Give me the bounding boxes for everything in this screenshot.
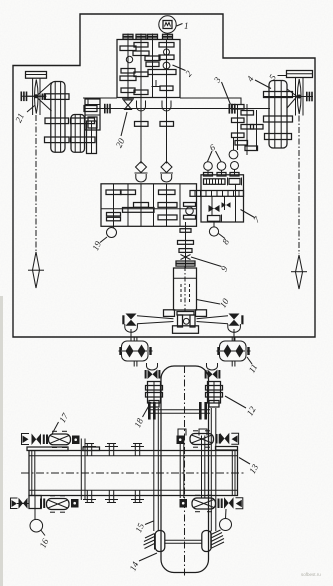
right spindle shaft	[291, 116, 307, 290]
right vibrator eccentric	[177, 436, 185, 445]
coupling on shaft 3 right	[229, 104, 236, 114]
bearing cup motor shaft	[162, 101, 171, 112]
drive 12 bevel	[205, 363, 221, 379]
vibrator 17 thrust cone	[22, 434, 30, 445]
weight 16	[30, 509, 45, 536]
shaft 9 bevel cross	[181, 255, 191, 260]
housing 10 flange right	[196, 310, 207, 317]
drive 18 gear bracket	[146, 382, 163, 408]
left yoke frame	[51, 82, 65, 153]
head 7 bevel pair b	[222, 202, 231, 208]
gear case 19 housing	[101, 184, 197, 227]
right weight	[220, 509, 232, 531]
ground hatch right	[211, 530, 224, 548]
label 21	[13, 83, 51, 125]
drum end bracket	[29, 496, 41, 509]
svg-text:1: 1	[184, 21, 189, 31]
guide rails 15 left	[154, 408, 159, 531]
vibrator 17 pulley	[32, 434, 42, 446]
gear on drop motor shaft	[160, 122, 174, 127]
vibrator 17 body	[49, 431, 71, 447]
label 6	[208, 142, 222, 162]
bearing cup shaft II	[137, 101, 146, 111]
gears motor shaft	[148, 43, 176, 91]
wheel axle	[148, 402, 210, 420]
machine frame	[161, 366, 209, 578]
housing 10 body	[174, 266, 197, 312]
second yoke frame	[71, 115, 85, 153]
spindle head 7 housing	[201, 175, 244, 222]
drive 18 bevel	[145, 363, 161, 379]
shaft 9 coupling b	[178, 241, 194, 245]
label 13	[239, 458, 260, 476]
label 3	[211, 75, 230, 105]
lower vibrator eccentric	[71, 499, 79, 508]
shaft 9 coupling c	[179, 249, 192, 253]
drum pedestal right	[83, 447, 100, 451]
right vibrator body	[190, 431, 214, 447]
housing 10 flange left	[164, 310, 175, 317]
svg-text:sofbest.ru: sofbest.ru	[301, 572, 321, 577]
pulley 5 shaft	[264, 92, 313, 102]
label 4	[245, 74, 271, 89]
shaft 9 coupling a	[180, 229, 191, 233]
vibrator 17 eccentric	[72, 436, 80, 445]
frame outline	[13, 14, 315, 337]
gears shaft III	[145, 56, 161, 87]
elastic coupling right drop shaft	[160, 162, 173, 227]
case 19 shaft c	[153, 184, 155, 227]
bearing box right	[87, 121, 97, 154]
label 14	[128, 553, 157, 573]
left yoke gear upper	[45, 94, 70, 100]
gearbox shaft I	[123, 34, 133, 100]
label 5	[267, 72, 286, 81]
case 19 gears	[106, 190, 196, 220]
scan edge shading	[0, 296, 3, 586]
right gear cluster	[232, 104, 264, 155]
belt pulley 5 wheel	[292, 78, 307, 116]
gearbox shaft II	[136, 34, 146, 164]
weight 8	[209, 222, 225, 239]
lower vibrator pulley	[17, 498, 29, 509]
housing 10 base	[173, 326, 199, 334]
second yoke gear upper	[71, 118, 95, 124]
label 18	[132, 402, 151, 429]
lower vibrator thrust cone	[11, 498, 18, 509]
lower right vibrator body	[192, 495, 216, 511]
auger drum 13	[21, 451, 246, 496]
gearbox motor shaft	[166, 40, 168, 164]
right yoke gear lower	[265, 134, 292, 140]
drum pedestal left	[27, 447, 68, 451]
label 12	[225, 396, 258, 417]
motor M (1)	[159, 16, 176, 40]
pulley 21 shaft	[21, 92, 47, 102]
gear on shaft 3 left end	[84, 106, 97, 112]
vertical shaft 9	[185, 222, 187, 268]
right vibrator pulley	[220, 433, 230, 445]
head 7 bottom coupling	[208, 215, 222, 223]
second yoke gear lower	[71, 137, 96, 143]
left wheel	[155, 531, 165, 552]
left yoke gear lower	[45, 137, 70, 143]
label 7	[241, 210, 263, 225]
vibrator 17 coupling	[43, 435, 48, 445]
label 11	[247, 357, 260, 374]
gears shaft I	[120, 46, 136, 93]
drum pin c	[131, 444, 144, 503]
head 7 bevel pair a	[209, 205, 220, 212]
bearing cap a	[178, 429, 186, 498]
right yoke gear upper	[264, 92, 293, 98]
universal joint 11 left	[119, 337, 153, 367]
gearbox shaft III	[148, 34, 158, 98]
spreader arm left	[137, 316, 174, 324]
right vibrator coupling	[216, 434, 221, 444]
lower right vibrator pulley	[224, 497, 234, 509]
weight 19	[100, 213, 121, 243]
label 15	[133, 521, 153, 534]
ground hatch left	[144, 534, 155, 550]
label 10	[197, 296, 231, 309]
head 7 gear rack	[190, 191, 244, 197]
case 19 shaft b	[127, 184, 129, 227]
spreader arm right	[197, 316, 229, 324]
label 9	[191, 257, 230, 273]
right yoke frame 4	[269, 81, 301, 149]
left spindle shaft	[28, 115, 44, 288]
case 19 shaft d	[179, 184, 181, 227]
label 17	[52, 411, 70, 434]
belt pulley 21 top bar	[26, 72, 47, 79]
link gearbox to left bearing box	[83, 97, 117, 99]
coupling on shaft 3 left	[104, 104, 111, 114]
belt pulley 21 wheel	[27, 78, 45, 115]
gears shaft II	[133, 43, 149, 95]
lower right vibrator thrust cone	[236, 498, 243, 509]
right vibrator thrust cone	[216, 433, 239, 450]
label 2	[173, 65, 195, 79]
label 1	[177, 21, 189, 31]
lower vibrator coupling	[40, 499, 45, 509]
spreader right end pulley	[228, 314, 244, 342]
drive 12 gear bracket	[206, 382, 223, 408]
right wheel	[202, 531, 211, 552]
drill spindles 6	[204, 138, 240, 177]
lower right vibrator coupling	[218, 499, 223, 509]
label 20	[114, 112, 127, 149]
wheel axle	[165, 540, 202, 543]
lower vibrator body	[47, 496, 70, 512]
head 7 coupling	[228, 178, 242, 186]
link to second yoke	[87, 98, 89, 106]
bearing cap b	[199, 429, 207, 498]
support column	[81, 439, 85, 501]
horizontal shaft 3	[85, 108, 271, 110]
head 7 inner shafts	[212, 184, 236, 222]
universal joint 11 right	[217, 337, 251, 367]
guide rails right	[211, 408, 216, 531]
right yoke gear middle	[264, 116, 293, 122]
bevel gears 20	[122, 99, 134, 110]
belt pulley 5 top bar	[287, 71, 313, 78]
housing 10 bevel cluster	[177, 312, 195, 328]
left yoke gear middle	[45, 118, 69, 124]
link gearbox to right cluster	[180, 98, 241, 105]
elastic coupling left drop shaft	[135, 162, 148, 227]
housing 10 cap	[176, 261, 195, 266]
drum pin a	[83, 444, 96, 503]
case 19 shaft a	[113, 184, 115, 228]
head 7 toothed gear	[204, 179, 226, 185]
gearbox (2) housing	[117, 40, 180, 98]
spreader left end pulley	[122, 314, 137, 342]
left bearing box	[85, 99, 100, 130]
lower right vibrator eccentric	[180, 499, 188, 508]
drum pin b	[105, 444, 118, 503]
gear on drop shaft II	[135, 122, 149, 127]
